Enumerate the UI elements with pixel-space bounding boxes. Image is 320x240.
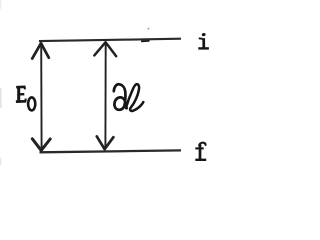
arrow E0: top head <box>32 43 49 58</box>
i tittle <box>202 33 206 36</box>
faint scan streak left edge <box>0 88 2 108</box>
script H glyph (hand-drawn) <box>114 84 144 111</box>
E bottom bar <box>16 100 26 103</box>
i bottom serif <box>198 47 209 49</box>
i stem <box>202 38 205 48</box>
level line i (top) <box>39 39 181 41</box>
arrow H: shaft <box>104 43 106 149</box>
arrow E0: shaft <box>40 43 42 150</box>
retrace overlap on top line <box>142 40 149 43</box>
label i <box>198 35 209 49</box>
E bottom-right serif <box>25 99 27 102</box>
subscript 0 <box>28 97 35 110</box>
f bottom serif <box>195 159 206 161</box>
E middle bar <box>20 93 24 95</box>
i top flag <box>199 37 203 40</box>
E stem <box>17 86 20 102</box>
f crossbar <box>195 147 203 149</box>
E top bar <box>16 86 25 89</box>
arrow E0: bottom head <box>32 139 50 151</box>
label E0 <box>16 86 35 110</box>
arrow H: bottom head <box>97 136 114 149</box>
E top-right serif <box>24 87 26 90</box>
label f <box>195 143 206 160</box>
speck <box>148 28 150 30</box>
f top hook <box>199 143 205 146</box>
f stem <box>199 144 202 159</box>
level line f (bottom) <box>40 150 182 152</box>
arrow H: top head <box>94 42 116 56</box>
